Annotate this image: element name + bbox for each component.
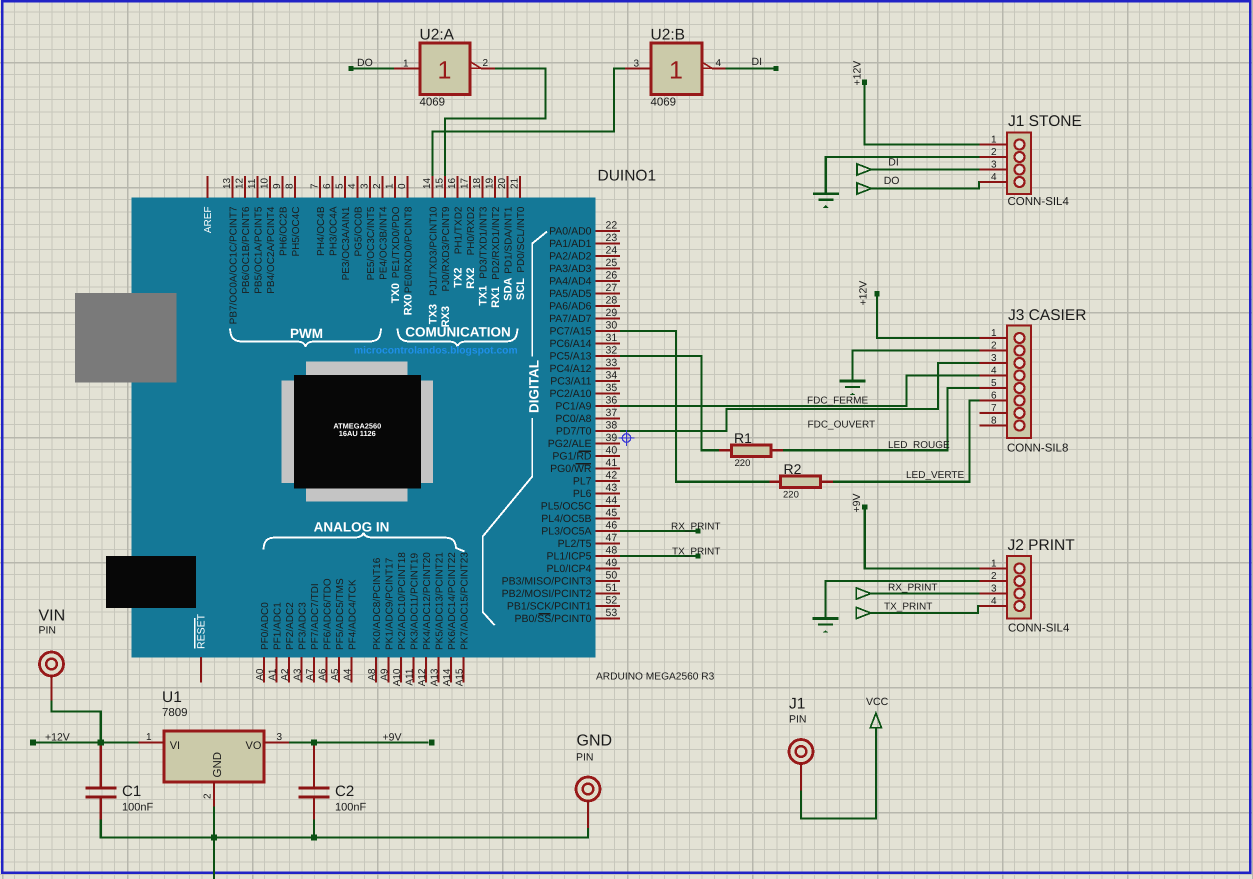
svg-text:11: 11 [247,178,258,189]
svg-text:3: 3 [360,183,371,189]
svg-text:PA4/AD4: PA4/AD4 [549,276,592,288]
power terminal +12V (J3) [858,281,880,306]
svg-text:PF1/ADC1: PF1/ADC1 [272,602,283,650]
ground symbol (J1) [813,192,839,195]
svg-text:2: 2 [991,341,997,352]
svg-text:GND: GND [577,733,613,750]
svg-text:PC7/A15: PC7/A15 [549,326,591,338]
svg-text:PE1/TXD0/PDO: PE1/TXD0/PDO [391,206,402,278]
svg-text:PL0/ICP4: PL0/ICP4 [547,563,592,575]
wire R1 to J3 pin 5 (LED_ROUGE) [783,388,980,450]
svg-text:A0: A0 [255,668,266,681]
svg-text:CONN-SIL8: CONN-SIL8 [1007,443,1068,455]
J1 pin 1 [980,135,1025,150]
svg-text:DIGITAL: DIGITAL [527,360,542,413]
wire FDC_OUVERT pin 38 to J3 pin 3 [620,363,980,431]
svg-text:PB6/OC1B/PCINT6: PB6/OC1B/PCINT6 [241,206,252,294]
svg-text:microcontrolandos.blogspot.com: microcontrolandos.blogspot.com [354,346,518,357]
power terminal VCC [866,696,889,728]
svg-text:VCC: VCC [866,696,889,708]
J2 pin 3 [980,584,1025,599]
svg-text:PL5/OC5C: PL5/OC5C [541,501,592,513]
svg-text:PC0/A8: PC0/A8 [555,413,591,425]
pin A5 (PF5/ADC5/TMS) [330,578,346,683]
svg-text:R2: R2 [784,461,802,477]
svg-text:PH4/OC4B: PH4/OC4B [316,206,327,256]
svg-text:PC6/A14: PC6/A14 [549,338,591,350]
pin 23 (PA1/AD1) [549,232,620,250]
power terminal +12V (left) [30,732,70,746]
microcontroller DUINO1 (ARDUINO MEGA2560 R3) [132,168,657,658]
svg-text:VO: VO [246,740,262,752]
svg-text:PJ0/RXD3/PCINT9: PJ0/RXD3/PCINT9 [441,206,452,291]
svg-text:3: 3 [634,59,640,70]
wire TX_PRINT buffer to J2 pin 4 [871,606,980,613]
svg-text:7809: 7809 [162,707,188,719]
terminal VIN (PIN) [39,608,66,701]
svg-text:GND: GND [212,752,224,778]
pin A8 (PK0/ADC8/PCINT16) [367,557,383,682]
svg-text:A15: A15 [454,668,465,686]
pin 53 (PB0/SS/PCINT0) [514,607,620,625]
pin 3 (PE5/OC3C/INT5) [360,176,377,280]
svg-text:PF4/ADC4/TCK: PF4/ADC4/TCK [347,579,358,650]
ground symbol (J3) [840,380,866,383]
U2:A pin 1 [394,59,420,70]
svg-text:PB7/OC0A/OC1C/PCINT7: PB7/OC0A/OC1C/PCINT7 [228,206,239,324]
svg-text:2: 2 [203,793,214,799]
svg-text:50: 50 [606,570,618,582]
svg-text:PL2/T5: PL2/T5 [558,538,592,550]
connector J1 STONE (CONN-SIL4) [1007,113,1082,208]
pin 49 (PL0/ICP4) [547,557,620,575]
svg-text:39: 39 [606,432,618,444]
svg-text:U2:B: U2:B [651,27,685,44]
wire J3 pin 2 to ground [853,351,980,381]
svg-text:TX1: TX1 [478,286,490,306]
U1 pin 2 [203,782,215,807]
svg-text:PD1/SDA/INT1: PD1/SDA/INT1 [503,206,514,274]
resistor R1 [719,430,783,469]
svg-text:A12: A12 [417,668,428,686]
pin RESET [195,613,208,682]
svg-text:DI: DI [752,56,763,68]
svg-text:PK4/ADC12/PCINT20: PK4/ADC12/PCINT20 [422,552,433,650]
svg-text:+9V: +9V [383,732,402,744]
pin A7 (PF7/ADC7/TDI) [305,583,321,682]
svg-text:RX_PRINT: RX_PRINT [671,522,720,533]
wire U1 pin 2 to bottom edge [213,807,215,879]
J3 pin 3 [980,353,1025,368]
svg-text:SCL: SCL [515,278,527,300]
svg-text:PH1/TXD2: PH1/TXD2 [453,206,464,254]
wire DI buffer to J1 pin 3 [871,168,979,170]
pin 43 (PL6) [573,482,620,500]
svg-text:13: 13 [222,177,233,189]
wire +9V to J2 pin 1 [865,510,980,569]
pin 12 (PB6/OC1B/PCINT6) [235,176,252,294]
ATMEGA2560 chip [281,362,433,502]
U1 pin 1 [139,732,165,743]
pin 16 (PH1/TXD2) [447,176,464,254]
terminal TX_PRINT (DUINO1) [672,547,720,559]
svg-text:3: 3 [991,584,997,595]
pin 15 (PJ0/RXD3/PCINT9) [435,176,452,292]
svg-text:49: 49 [606,557,618,569]
J2 pin 2 [980,571,1025,586]
buffer terminal RX_PRINT (J2) [856,583,937,600]
svg-text:PIN: PIN [39,625,57,637]
svg-text:2: 2 [372,183,383,189]
capacitor C2 (100nF) [298,746,366,820]
svg-text:15: 15 [435,177,446,189]
svg-text:ANALOG IN: ANALOG IN [314,520,390,535]
svg-text:PB1/SCK/PCINT1: PB1/SCK/PCINT1 [507,601,592,613]
pin 51 (PB2/MOSI/PCINT2) [502,582,620,600]
svg-text:CONN-SIL4: CONN-SIL4 [1008,623,1070,635]
svg-text:PL1/ICP5: PL1/ICP5 [547,551,592,563]
power jack block [106,556,196,608]
pin 4 (PG5/OC0B) [347,176,364,257]
svg-text:PA7/AD7: PA7/AD7 [549,313,592,325]
svg-text:100nF: 100nF [335,802,366,814]
svg-text:26: 26 [606,270,618,282]
pin 39 (PG2/ALE) [548,432,620,450]
svg-text:PF5/ADC5/TMS: PF5/ADC5/TMS [335,578,346,650]
svg-text:2: 2 [991,571,997,582]
pin 18 (PD3/TXD1/INT3) [472,176,489,279]
wire C2 to ground rail [313,820,315,838]
svg-text:PA1/AD1: PA1/AD1 [549,238,592,250]
pin A6 (PF6/ADC6/TDO) [317,578,333,682]
svg-text:LED_ROUGE: LED_ROUGE [888,440,950,451]
label DIGITAL with brace [483,232,547,626]
svg-text:40: 40 [606,445,618,457]
svg-text:PA0/AD0: PA0/AD0 [549,226,592,238]
svg-text:32: 32 [606,345,618,357]
pin 0 (PE0/RXD0/PCINT8) [397,176,414,293]
label PWM with brace [230,326,381,347]
svg-text:+9V: +9V [851,494,863,513]
svg-text:17: 17 [460,177,471,189]
pin 20 (PD1/SDA/INT1) [497,176,514,274]
svg-text:A9: A9 [379,668,390,681]
svg-text:7: 7 [310,183,321,189]
svg-text:PF7/ADC7/TDI: PF7/ADC7/TDI [310,583,321,650]
terminal GND (PIN) [576,733,612,829]
wire U2:B pin 4 to DI [726,67,774,69]
svg-text:A11: A11 [404,668,415,685]
pin 17 (PH0/RXD2) [460,176,477,255]
junction VIN/+12V/C1 [98,739,104,745]
svg-text:51: 51 [606,582,618,594]
svg-text:PC4/A12: PC4/A12 [549,363,591,375]
pin 50 (PB3/MISO/PCINT3) [502,570,620,588]
svg-text:10: 10 [260,177,271,189]
pin 33 (PC4/A12) [549,357,620,375]
pin 31 (PC6/A14) [549,332,620,350]
svg-text:1: 1 [146,732,152,743]
svg-text:RX2: RX2 [465,268,477,289]
terminal DI [752,56,779,71]
svg-text:DO: DO [884,175,900,187]
svg-text:PB3/MISO/PCINT3: PB3/MISO/PCINT3 [502,576,592,588]
svg-text:2: 2 [991,147,997,158]
svg-text:31: 31 [606,332,618,344]
wire pin 30 to R2 [620,331,770,482]
svg-text:PK7/ADC15/PCINT23: PK7/ADC15/PCINT23 [459,552,470,650]
svg-text:PK2/ADC10/PCINT18: PK2/ADC10/PCINT18 [397,552,408,650]
pin 28 (PA6/AD6) [549,295,620,313]
svg-text:TX3: TX3 [428,304,440,324]
svg-text:A1: A1 [267,668,278,681]
junction U1 pin2/ground rail [211,834,217,840]
svg-text:4: 4 [716,58,722,69]
svg-text:A4: A4 [342,668,353,681]
svg-text:TX0: TX0 [390,283,402,303]
svg-text:7: 7 [991,403,997,414]
J3 pin 5 [980,378,1025,393]
svg-text:J1: J1 [789,696,805,713]
svg-text:J2 PRINT: J2 PRINT [1008,537,1076,554]
U2:B output bubble and pin 4 [702,58,726,69]
svg-text:14: 14 [422,177,433,189]
svg-text:A13: A13 [429,668,440,686]
svg-text:A8: A8 [367,668,378,681]
wire RX_PRINT buffer to J2 pin 3 [871,592,980,594]
wire pin 46 to RX_PRINT terminal [620,530,696,532]
svg-text:12: 12 [235,177,246,189]
svg-text:C2: C2 [335,783,354,800]
svg-text:16: 16 [447,177,458,189]
wire DO to U2:A pin 1 [354,67,395,69]
pin 13 (PB7/OC0A/OC1C/PCINT7) [222,176,239,324]
wire FDC_FERME pin 36 to J3 pin 4 [620,376,980,407]
svg-text:PF6/ADC6/TDO: PF6/ADC6/TDO [322,578,333,650]
svg-text:42: 42 [606,470,618,482]
svg-text:38: 38 [606,420,618,432]
svg-text:FDC_FERME: FDC_FERME [807,396,868,407]
pin 35 (PC2/A10) [549,382,620,400]
svg-text:1: 1 [991,328,997,339]
svg-text:16AU 1126: 16AU 1126 [339,429,376,438]
svg-text:PWM: PWM [290,326,323,341]
pin 46 (PL3/OC5A) [541,520,620,538]
svg-text:PC5/A13: PC5/A13 [549,351,591,363]
svg-text:35: 35 [606,382,618,394]
svg-text:ARDUINO MEGA2560 R3: ARDUINO MEGA2560 R3 [596,672,715,683]
U1 pin 3 [264,732,289,743]
power terminal +9V (J2) [851,494,867,513]
svg-text:4: 4 [991,172,997,183]
wire J1 to VCC [801,729,876,819]
svg-text:PF0/ADC0: PF0/ADC0 [260,602,271,650]
svg-text:25: 25 [606,257,618,269]
U2:B pin 3 [625,59,651,70]
svg-text:1: 1 [669,57,683,85]
svg-text:PG0/WR: PG0/WR [550,463,592,475]
svg-text:5: 5 [335,183,346,189]
junction C2/ground rail [311,834,317,840]
inverter gate U2:A (4069) [420,27,471,109]
svg-text:R1: R1 [734,430,752,446]
svg-text:PG2/ALE: PG2/ALE [548,438,592,450]
svg-text:3: 3 [991,160,997,171]
svg-text:28: 28 [606,295,618,307]
svg-text:4: 4 [347,183,358,189]
pin AREF [203,176,214,233]
svg-text:34: 34 [606,370,618,382]
terminal DO [348,57,372,71]
svg-text:A7: A7 [305,668,316,681]
pin A1 (PF1/ADC1) [267,602,283,683]
svg-text:22: 22 [606,220,618,232]
pin 29 (PA7/AD7) [549,307,620,325]
J3 pin 1 [980,328,1025,343]
pin 52 (PB1/SCK/PCINT1) [507,595,620,613]
svg-text:TX_PRINT: TX_PRINT [672,547,720,558]
pin 14 (PJ1/TXD3/PCINT10) [422,176,439,296]
J3 pin 6 [980,391,1025,406]
pin A4 (PF4/ADC4/TCK) [342,579,358,682]
svg-text:PA6/AD6: PA6/AD6 [549,301,592,313]
svg-text:RX1: RX1 [490,287,502,308]
svg-text:A6: A6 [317,668,328,681]
pin A10 (PK2/ADC10/PCINT18) [392,552,408,687]
wire U1 VO to +9V [289,741,429,743]
svg-text:18: 18 [472,177,483,189]
svg-text:53: 53 [606,607,618,619]
pin 26 (PA4/AD4) [549,270,620,288]
pin 9 (PH6/OC2B) [272,176,289,256]
svg-text:PIN: PIN [576,752,594,764]
pin 47 (PL2/T5) [558,532,620,550]
svg-text:3: 3 [991,353,997,364]
svg-text:PG5/OC0B: PG5/OC0B [353,206,364,256]
svg-text:VI: VI [170,740,180,752]
pin 44 (PL5/OC5C) [541,495,620,513]
svg-text:A14: A14 [442,668,453,686]
pin 10 (PB4/OC2A/PCINT4) [260,176,277,294]
svg-text:6: 6 [322,183,333,189]
svg-text:4069: 4069 [420,97,446,109]
svg-text:0: 0 [397,183,408,189]
pin 48 (PL1/ICP5) [547,545,620,563]
J1 pin 4 [980,172,1025,187]
pin A11 (PK3/ADC11/PCINT19) [404,552,420,685]
svg-text:A10: A10 [392,668,403,686]
wire C1 to ground rail [100,820,102,839]
label ANALOG IN with brace [264,520,465,552]
terminal J1 (PIN) [789,696,813,791]
svg-text:RESET: RESET [196,613,208,649]
svg-text:220: 220 [783,490,799,501]
label COMUNICATION with brace [398,325,518,347]
svg-text:PE4/OC3B/INT4: PE4/OC3B/INT4 [378,206,389,280]
wire pin 32 to R1 [620,356,719,450]
pin 38 (PD7/T0) [556,420,620,438]
svg-text:PK1/ADC9/PCINT17: PK1/ADC9/PCINT17 [384,557,395,650]
buffer terminal TX_PRINT (J2) [856,602,932,619]
pin A14 (PK6/ADC14/PCINT22) [442,552,458,687]
svg-text:24: 24 [606,245,618,257]
pin 11 (PB5/OC1A/PCINT5) [247,176,264,294]
svg-text:1: 1 [403,59,409,70]
svg-text:A5: A5 [330,668,341,681]
svg-text:PE5/OC3C/INT5: PE5/OC3C/INT5 [366,206,377,280]
pin 22 (PA0/AD0) [549,220,620,238]
svg-text:PA3/AD3: PA3/AD3 [549,263,592,275]
wire DO buffer to J1 pin 4 [871,182,979,189]
svg-text:8: 8 [991,416,997,427]
J1 pin 2 [980,147,1025,162]
svg-text:33: 33 [606,357,618,369]
connector J3 CASIER (CONN-SIL8) [1007,307,1086,455]
svg-text:J3 CASIER: J3 CASIER [1008,307,1086,324]
svg-text:20: 20 [497,177,508,189]
svg-text:PE0/RXD0/PCINT8: PE0/RXD0/PCINT8 [403,206,414,293]
pin 42 (PL7) [573,470,620,488]
wire +12V to U1 VI [36,741,139,743]
svg-text:PA5/AD5: PA5/AD5 [549,288,592,300]
svg-text:PIN: PIN [789,714,807,726]
wire VIN to +12V rail [52,701,101,743]
svg-text:6: 6 [991,391,997,402]
svg-text:PK6/ADC14/PCINT22: PK6/ADC14/PCINT22 [447,552,458,650]
junction +9V/C2 [311,739,317,745]
buffer terminal DI (J1) [857,157,899,176]
svg-text:DO: DO [357,57,373,69]
svg-text:A2: A2 [280,668,291,681]
svg-text:PD3/TXD1/INT3: PD3/TXD1/INT3 [478,206,489,279]
pin 8 (PH5/OC4C) [285,176,302,257]
svg-text:100nF: 100nF [122,802,153,814]
svg-text:9: 9 [272,183,283,189]
svg-text:1: 1 [991,135,997,146]
svg-text:PB2/MOSI/PCINT2: PB2/MOSI/PCINT2 [502,588,592,600]
capacitor C1 (100nF) [85,746,153,820]
svg-text:48: 48 [606,545,618,557]
pin 32 (PC5/A13) [549,345,620,363]
pin 5 (PE3/OC3A/AIN1) [335,176,352,280]
svg-text:PC1/A9: PC1/A9 [555,401,591,413]
svg-text:PD0/SCL/INT0: PD0/SCL/INT0 [516,206,527,273]
svg-text:43: 43 [606,482,618,494]
wire U2:B pin 3 to DUINO1 pin 14 [433,69,626,178]
svg-text:PB0/SS/PCINT0: PB0/SS/PCINT0 [514,613,591,625]
svg-text:29: 29 [606,307,618,319]
svg-text:3: 3 [277,732,283,743]
svg-text:45: 45 [606,507,618,519]
svg-text:PA2/AD2: PA2/AD2 [549,251,592,263]
wire +12V to J3 pin 1 [877,296,980,338]
svg-text:VIN: VIN [39,608,66,625]
svg-text:PD2/RXD1/INT2: PD2/RXD1/INT2 [491,206,502,280]
inverter gate U2:B (4069) [651,27,703,109]
pin 1 (PE1/TXD0/PDO) [385,176,402,278]
pin 7 (PH4/OC4B) [310,176,327,256]
pin A15 (PK7/ADC15/PCINT23) [454,552,470,687]
svg-text:PH6/OC2B: PH6/OC2B [278,206,289,256]
svg-text:C1: C1 [122,783,141,800]
svg-text:PH3/OC4A: PH3/OC4A [328,206,339,256]
svg-text:SDA: SDA [503,277,515,300]
svg-text:5: 5 [991,378,997,389]
U2:A output bubble and pin 2 [471,58,496,69]
svg-text:PK3/ADC11/PCINT19: PK3/ADC11/PCINT19 [409,552,420,650]
svg-text:J1 STONE: J1 STONE [1008,113,1082,130]
svg-text:PJ1/TXD3/PCINT10: PJ1/TXD3/PCINT10 [428,206,439,296]
